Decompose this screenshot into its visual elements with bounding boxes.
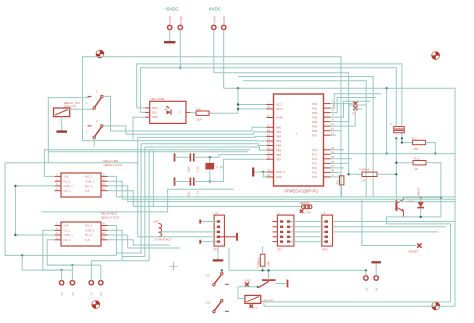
- junction 5V-VCC: [237, 87, 239, 89]
- U1 right pin PD7: [312, 131, 334, 137]
- wire switch1 top: [103, 96, 110, 131]
- svg-text:5VDC: 5VDC: [168, 16, 172, 24]
- U1 right pin PC3: [312, 160, 334, 166]
- svg-text:PD0: PD0: [312, 102, 318, 106]
- junction V22 top: [21, 254, 23, 256]
- wire K3 r3: [108, 235, 181, 248]
- wire PB3 net: [83, 140, 267, 142]
- wire PC5 stub: [331, 171, 341, 173]
- wire PD5 loop: [331, 109, 363, 126]
- svg-text:14: 14: [267, 123, 270, 127]
- junction pads12 a: [60, 269, 62, 271]
- svg-text:NO_3: NO_3: [85, 224, 93, 228]
- svg-text:PC1: PC1: [312, 153, 318, 157]
- wire K3 r1: [108, 226, 117, 256]
- junction AVCC: [237, 108, 239, 110]
- U1 right pin PD0: [312, 100, 334, 106]
- U1 left pin PB1: [267, 128, 282, 134]
- wire K2 r1: [108, 176, 117, 197]
- wire riser A: [137, 137, 139, 236]
- thermistor THR2 vertical: [257, 246, 271, 270]
- wire PD1 loop: [331, 94, 382, 108]
- wire K4 left: [238, 287, 249, 299]
- wire GND_2 stub: [263, 171, 266, 173]
- svg-text:S-P: S-P: [85, 238, 90, 242]
- svg-text:NC_3: NC_3: [85, 233, 92, 237]
- transistor Q1: [396, 197, 414, 217]
- pad JP1 pin1: [168, 16, 173, 30]
- svg-text:1-IN: 1-IN: [64, 175, 69, 179]
- U1 left pin AVCC: [267, 105, 284, 111]
- junction 10k-base: [395, 162, 397, 164]
- wire thermistor right: [377, 173, 396, 175]
- svg-text:PB0: PB0: [276, 126, 282, 130]
- wire K3 left r2: [43, 230, 62, 270]
- connector JP4 header: [212, 211, 224, 252]
- pad X1-3: [89, 281, 94, 296]
- switch K1a: [206, 272, 229, 285]
- pad X1-2: [70, 281, 75, 296]
- wire LED to resistor: [190, 111, 196, 114]
- svg-text:⊥0k: ⊥0k: [360, 179, 366, 183]
- wire riser E: [152, 151, 154, 207]
- svg-text:¬5VDC: ¬5VDC: [164, 7, 179, 12]
- wire riser B: [116, 144, 141, 253]
- LED module LED1: [145, 97, 191, 123]
- wire PD6 stub: [331, 130, 342, 132]
- svg-text:24: 24: [331, 150, 334, 154]
- connector JP5 header: [273, 211, 294, 252]
- svg-text:RESET: RESET: [409, 250, 419, 254]
- svg-text:19: 19: [267, 146, 270, 150]
- resistor JP6: [336, 176, 344, 185]
- svg-text:10: 10: [267, 155, 270, 159]
- svg-text:LED_RGB: LED_RGB: [150, 97, 164, 101]
- ground bar K area: [213, 246, 224, 260]
- svg-text:PD5: PD5: [312, 124, 318, 128]
- U1 right pin PC2: [312, 155, 334, 161]
- svg-text:PC2: PC2: [312, 157, 318, 161]
- resistor R100k: [412, 136, 426, 150]
- svg-text:20: 20: [267, 105, 270, 109]
- svg-text:COM_1: COM_1: [64, 233, 74, 237]
- ground GND coil: [57, 130, 68, 132]
- svg-text:R_k: R_k: [412, 136, 417, 140]
- svg-text:22: 22: [267, 173, 270, 177]
- svg-text:PD6: PD6: [312, 129, 318, 133]
- wire AVCC stub: [238, 108, 267, 110]
- transistor M1: [249, 270, 276, 287]
- wire base drop: [395, 163, 397, 200]
- wire PC4 stub: [331, 167, 345, 169]
- wire K1a top: [221, 270, 223, 272]
- resistor R10k: [413, 157, 427, 171]
- capacitor plate right: [276, 280, 288, 288]
- pad JP2 pin2: [222, 16, 227, 30]
- svg-text:15: 15: [267, 128, 270, 132]
- U1 left pin PB2: [267, 133, 282, 139]
- svg-text:□_PA: □_PA: [304, 211, 311, 215]
- wire band extra 1: [44, 150, 250, 177]
- wire PB1 net: [126, 132, 267, 134]
- wire top bus 4b: [238, 77, 373, 198]
- wire left loop V48: [48, 98, 90, 163]
- diode D1: [416, 187, 424, 217]
- capacitor C1: [175, 153, 200, 172]
- junction thr-base: [395, 173, 397, 175]
- junction K1a: [221, 269, 223, 271]
- svg-text:9VDC: 9VDC: [212, 16, 216, 24]
- connector JP6 header: [321, 211, 333, 252]
- switch S2: [86, 119, 103, 139]
- pad X1-1: [59, 281, 64, 296]
- supply stub JP4 row4: [220, 233, 237, 241]
- junction diode bottom: [420, 216, 422, 218]
- wire PD4 loop: [331, 105, 367, 122]
- wire bottom rail 1: [261, 301, 451, 303]
- gray origin cross: [170, 262, 178, 270]
- wire PB0 net: [111, 127, 267, 131]
- junction mosfet gate: [256, 286, 258, 288]
- svg-text:22pF: 22pF: [186, 166, 190, 172]
- U1 left pin GND_2: [267, 168, 286, 174]
- svg-text:18: 18: [267, 142, 270, 146]
- wire K3 left r4: [47, 240, 101, 265]
- svg-text:NO_1: NO_1: [64, 189, 72, 193]
- junction V15 b: [14, 234, 16, 236]
- wire GND tie: [263, 172, 266, 177]
- wire K3 r2: [91, 230, 122, 260]
- svg-text:COM_3: COM_3: [85, 228, 95, 232]
- wire pad X1-2 up: [71, 265, 73, 280]
- svg-text:THR6A5: THR6A5: [359, 168, 370, 172]
- U1 right pin PD1: [312, 104, 334, 110]
- U1 left pin AREF: [267, 114, 284, 120]
- wire pad4 down: [223, 30, 225, 89]
- wire PC1 long: [331, 153, 456, 155]
- fiducial mark bottom-right: [432, 302, 441, 311]
- wire riser C: [122, 147, 145, 257]
- wire long net 2: [122, 198, 455, 200]
- wire JP6 down: [341, 185, 343, 197]
- wire emitter rail: [387, 216, 441, 218]
- wire H270 ext: [62, 269, 73, 271]
- resistor R220: [196, 107, 210, 121]
- wire k-line left riser: [228, 248, 230, 270]
- junction pad2 net: [179, 67, 181, 69]
- svg-text:COM_1: COM_1: [64, 184, 74, 188]
- wire K2 r4: [108, 191, 134, 207]
- ground bar X2: [371, 261, 381, 263]
- U1 right pin PD5: [312, 122, 334, 128]
- U1 right pin PC4: [312, 164, 334, 170]
- wire switch2 top: [103, 126, 126, 134]
- svg-text:C_22: C_22: [196, 166, 200, 173]
- relay RELAY_INT coil: [50, 101, 80, 123]
- junction thermistor: [347, 173, 349, 175]
- U1 right pin PC0: [312, 146, 334, 152]
- wire coil right to switch1: [70, 108, 95, 110]
- svg-text:JP10: JP10: [322, 248, 329, 252]
- junction 100k left: [401, 141, 403, 143]
- wire XTAL1 to PB6: [194, 181, 219, 183]
- svg-text:□_1: □_1: [321, 211, 326, 215]
- wire hdr right out2: [333, 226, 447, 228]
- wire pad2 down: [179, 30, 181, 68]
- junction right drop: [385, 152, 387, 154]
- inductor SMA: [153, 220, 217, 242]
- relay K4 DRA-2P coil: [245, 295, 274, 309]
- wire JP4 row4 in: [138, 236, 217, 238]
- U1 right pin PD4: [312, 118, 334, 124]
- wire top bus 2: [137, 64, 402, 127]
- svg-text:⊥00k: ⊥00k: [412, 147, 419, 151]
- resistor THR6A5: [359, 168, 377, 183]
- no-connect PD0: [331, 101, 358, 115]
- wire pad1 to ground: [169, 30, 171, 41]
- svg-text:VCC: VCC: [276, 103, 282, 107]
- wire PD7 stub: [331, 134, 337, 136]
- U1 right pin PC1: [312, 150, 334, 156]
- junction GND pins: [262, 171, 264, 173]
- fiducial mark top-left: [96, 50, 105, 59]
- wire PC0 stub: [331, 149, 345, 151]
- svg-text:S-P: S-P: [85, 189, 90, 193]
- capacitor pair C7: [389, 122, 405, 133]
- junction crystal top: [209, 156, 211, 158]
- wire VCC drop: [209, 88, 238, 113]
- wire crystal top to PB6: [219, 155, 266, 158]
- wire hdr row5: [290, 241, 325, 243]
- wire riser D: [148, 150, 150, 261]
- ground GND1: [164, 41, 175, 43]
- svg-text:1u: 1u: [389, 122, 393, 125]
- relay K2 RELAY-BO box: [55, 159, 122, 197]
- junction 5V-right: [385, 87, 387, 89]
- svg-text:ATMEGA328P-PU: ATMEGA328P-PU: [284, 189, 318, 194]
- U1 right pin PD3: [312, 113, 334, 119]
- svg-text:PC5: PC5: [312, 171, 318, 175]
- wire riser D join: [122, 260, 149, 262]
- wire LED blu lead: [140, 111, 145, 113]
- U1 right pin PC6: [312, 173, 334, 179]
- pad X1-4: [99, 281, 104, 296]
- svg-text:0V: 0V: [99, 292, 103, 295]
- svg-text:4VDC: 4VDC: [209, 7, 222, 12]
- wire hdr row4: [290, 236, 325, 238]
- wire collector rail: [403, 196, 441, 198]
- svg-text:5VDC: 5VDC: [179, 16, 183, 24]
- wire VCC stub: [238, 104, 267, 106]
- svg-text:2N4007: 2N4007: [416, 187, 420, 197]
- junction pads12 b: [71, 264, 73, 266]
- svg-text:RED: RED: [152, 106, 158, 110]
- switch K1b: [206, 299, 229, 312]
- U1 right pin PC5: [312, 169, 334, 175]
- junction crystal bottom: [209, 180, 211, 182]
- switch S1: [86, 90, 103, 110]
- fiducial mark bottom-left: [92, 300, 101, 309]
- svg-text:GRN: GRN: [152, 115, 158, 119]
- U1 left pin PB0: [267, 123, 282, 129]
- svg-text:PD4: PD4: [312, 120, 318, 124]
- supply bar JP11 row1: [200, 220, 217, 224]
- U1 right pin PD2: [312, 109, 334, 115]
- wire pad X1-2 h: [47, 264, 72, 266]
- relay K3 RELAY-BV2 box: [55, 212, 120, 247]
- svg-text:C: C: [179, 111, 181, 115]
- svg-text:2■PWR□: 2■PWR□: [300, 201, 311, 205]
- pad X2-2: [374, 276, 379, 291]
- svg-text:JP5: JP5: [277, 248, 282, 252]
- svg-text:PC6: PC6: [312, 175, 318, 179]
- junction mosfet top: [267, 269, 269, 271]
- svg-text:3V: 3V: [60, 292, 64, 295]
- svg-text:K1□: K1□: [206, 274, 211, 278]
- svg-text:23: 23: [331, 146, 334, 150]
- wire K2 r3: [108, 186, 128, 202]
- wire PD3 loop: [331, 101, 371, 117]
- svg-text:NC_3: NC_3: [85, 184, 92, 188]
- junction V15 a: [14, 185, 16, 187]
- svg-text:⊥0k6: ⊥0k6: [267, 261, 271, 268]
- wire LED red lead: [137, 107, 145, 109]
- svg-text:10: 10: [102, 231, 105, 235]
- svg-text:PD3: PD3: [312, 115, 318, 119]
- svg-text:PB7: PB7: [276, 157, 282, 161]
- wire PC2 stub: [331, 158, 353, 160]
- wire PC3 stub: [331, 162, 349, 164]
- svg-text:NC_1: NC_1: [64, 179, 71, 183]
- svg-text:1-IN: 1-IN: [64, 224, 69, 228]
- wire hdr row1: [290, 221, 325, 223]
- svg-text:2V: 2V: [71, 292, 75, 295]
- svg-text:QESU-2 OC3: QESU-2 OC3: [101, 215, 120, 219]
- svg-text:□_11: □_11: [212, 211, 218, 215]
- wire emitter down loop: [387, 217, 451, 302]
- supply bar JP11 row5: [200, 240, 217, 244]
- wire long net 1: [116, 196, 455, 198]
- svg-text:K1□: K1□: [254, 306, 259, 310]
- wire hdr right out3: [333, 231, 439, 233]
- wire K2 r2: [108, 181, 123, 199]
- wire switch2 bottom: [93, 138, 95, 147]
- wire V22: [22, 255, 61, 270]
- wire k-line: [229, 269, 366, 271]
- wire top bus 1: [83, 57, 342, 198]
- svg-text:GND: GND: [276, 175, 282, 179]
- wire loop under relay label: [42, 189, 234, 212]
- svg-text:GND: GND: [245, 279, 251, 283]
- svg-text:QESU-2 OC3: QESU-2 OC3: [104, 163, 123, 167]
- U1 left pin VCC: [267, 101, 282, 107]
- junction VCC: [237, 103, 239, 105]
- U1 left pin PB4: [267, 142, 282, 148]
- svg-text:□_1: □_1: [276, 211, 281, 215]
- wire right drop: [386, 88, 388, 153]
- fiducial mark top-right: [431, 51, 440, 60]
- svg-text:PB2: PB2: [276, 135, 282, 139]
- U1 left pin PB7: [267, 155, 282, 161]
- svg-text:NO_1: NO_1: [64, 238, 72, 242]
- wire 5V rail: [224, 88, 455, 306]
- wire band extra 2: [48, 151, 248, 153]
- wire PB4 net: [141, 144, 266, 146]
- svg-text:COM_3: COM_3: [85, 179, 95, 183]
- wire 100k left: [402, 132, 413, 143]
- op-amp U1 ATMEGA328P-PU body: [274, 94, 324, 186]
- wire hdr right out1: [333, 221, 456, 223]
- no-connect GND flag: [245, 279, 251, 287]
- wire LED grn lead: [133, 117, 145, 139]
- wire PC6 to JP6: [331, 176, 342, 178]
- svg-text:GND_2: GND_2: [276, 170, 285, 174]
- U1 left pin PB5: [267, 146, 282, 152]
- wire K3 r4: [108, 240, 171, 245]
- U1 right pin PD6: [312, 127, 334, 133]
- pad X2-1: [364, 276, 369, 291]
- junction C7 a: [395, 137, 397, 139]
- svg-text:17: 17: [267, 137, 270, 141]
- svg-text:PD1: PD1: [312, 106, 318, 110]
- svg-text:9VDC: 9VDC: [222, 16, 226, 24]
- crystal Q1: [206, 157, 224, 181]
- wire PD2 loop: [331, 98, 377, 113]
- no-connect RESET: [409, 243, 422, 253]
- pad JP2 pin1: [212, 16, 217, 30]
- wire reset net: [362, 200, 417, 245]
- svg-text:NO_3: NO_3: [85, 175, 93, 179]
- junction collector-right: [440, 196, 442, 198]
- wire net 204: [133, 205, 301, 207]
- svg-text:16: 16: [267, 133, 270, 137]
- capacitor C2: [175, 178, 200, 198]
- svg-text:K1□: K1□: [206, 301, 211, 305]
- wire top bus 3: [140, 68, 396, 127]
- wire top bus 4: [214, 73, 349, 175]
- svg-text:PB1: PB1: [276, 130, 282, 134]
- wire crystal bottom to PB7: [219, 159, 266, 181]
- svg-text:AREF: AREF: [276, 116, 284, 120]
- junction collector-diode: [420, 196, 422, 198]
- svg-text:PB6: PB6: [276, 153, 282, 157]
- svg-text:25: 25: [331, 155, 334, 159]
- wire V5: [5, 163, 116, 256]
- junction C7 b: [401, 137, 403, 139]
- ground symbol GND_2: [253, 168, 263, 177]
- svg-text:PC4: PC4: [312, 166, 318, 170]
- svg-text:10: 10: [102, 182, 105, 186]
- svg-text:1V: 1V: [90, 292, 94, 295]
- wire 10k right: [426, 163, 441, 217]
- junction thr bottom: [261, 269, 263, 271]
- wire pad X1-3 up: [90, 261, 92, 281]
- wire PB5 net: [145, 147, 267, 150]
- junction PC1 tap: [434, 152, 436, 154]
- wire 10k drop: [396, 138, 413, 162]
- svg-text:220R: 220R: [196, 117, 202, 121]
- wire 100k right: [426, 143, 436, 154]
- wire pad X2-1 up: [365, 270, 367, 275]
- wire long net 3: [128, 201, 455, 203]
- pad JP1 pin2: [178, 16, 183, 30]
- wire bottom rail 2: [264, 305, 455, 307]
- wire thermistor left tap: [349, 173, 362, 175]
- wire H162: [5, 162, 138, 164]
- svg-text:PC3: PC3: [312, 162, 318, 166]
- svg-text:PB4: PB4: [276, 144, 282, 148]
- wire coil to ground: [61, 117, 63, 131]
